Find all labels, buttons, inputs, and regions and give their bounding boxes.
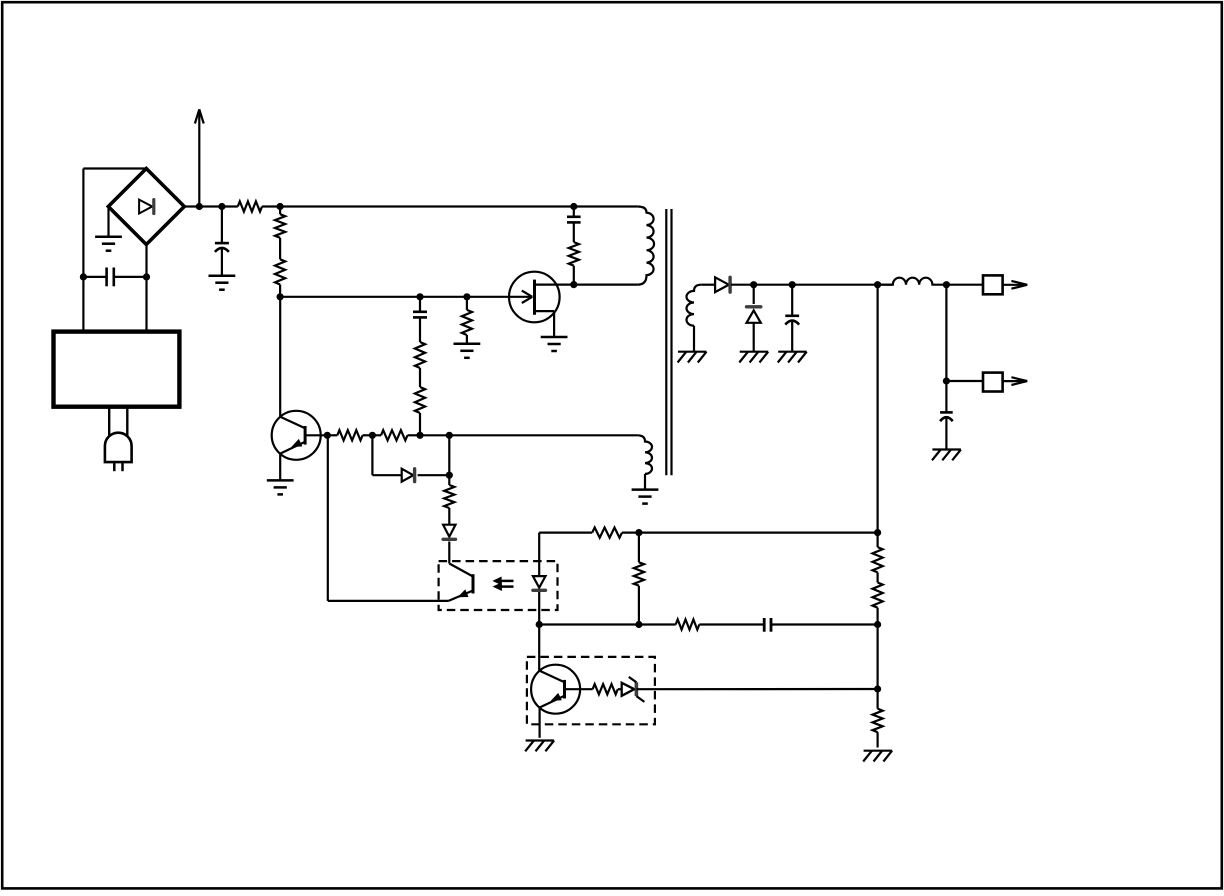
wire	[280, 296, 509, 298]
diode D3	[372, 435, 449, 481]
node	[196, 203, 203, 210]
node	[635, 529, 642, 536]
ground	[632, 490, 659, 504]
wire	[184, 205, 238, 207]
ground	[778, 352, 807, 363]
resistor R10	[327, 430, 372, 440]
resistor R13	[592, 528, 877, 538]
connector J2 output -	[946, 373, 1027, 392]
capacitor C2 with ground	[209, 207, 236, 290]
wire	[539, 623, 676, 625]
optocoupler U1 phototransistor	[449, 564, 474, 601]
ground	[678, 352, 707, 363]
capacitor C4	[567, 207, 581, 243]
optocoupler U1 LED	[533, 533, 546, 625]
capacitor C7	[764, 618, 877, 632]
arrow: rectified HV	[195, 109, 204, 206]
node	[570, 203, 577, 210]
wire	[754, 284, 893, 286]
diode D1	[701, 277, 754, 292]
node	[463, 293, 470, 300]
resistor R8	[873, 547, 883, 624]
ground	[739, 352, 768, 363]
wire	[420, 434, 449, 436]
wire	[280, 205, 637, 207]
optocoupler U1 light arrows	[494, 577, 514, 590]
capacitor C3	[413, 297, 427, 318]
ground	[863, 751, 892, 762]
shunt regulator U2 package	[527, 657, 655, 724]
wire	[262, 205, 280, 207]
wire	[83, 167, 146, 169]
node: drain	[570, 281, 577, 288]
transformer T1 aux winding	[638, 435, 652, 489]
ground	[454, 344, 481, 358]
zener diode D2	[747, 285, 761, 352]
resistor R5	[415, 368, 425, 435]
wire	[328, 435, 449, 601]
node	[536, 621, 543, 628]
node	[750, 281, 757, 288]
AC plug P1	[105, 407, 132, 472]
diode D4	[443, 525, 455, 564]
node: AC right	[143, 273, 150, 280]
ground	[525, 741, 554, 752]
transistor Q2	[272, 297, 328, 481]
resistor R15	[676, 619, 765, 629]
node	[943, 281, 950, 288]
optocoupler U1 package	[439, 561, 558, 610]
EMI filter block	[54, 332, 180, 407]
ground	[541, 337, 568, 351]
MOSFET Q1	[509, 272, 574, 337]
wire	[574, 284, 638, 286]
resistor R11	[372, 430, 420, 440]
wire	[145, 277, 147, 332]
wire	[945, 285, 947, 381]
wire	[145, 245, 147, 277]
node	[943, 377, 950, 384]
wire	[876, 625, 878, 690]
resistor R9	[873, 689, 883, 748]
capacitor C6	[940, 381, 953, 450]
capacitor C1	[83, 268, 146, 287]
node	[635, 621, 642, 628]
node	[789, 281, 796, 288]
transformer T1 secondary	[687, 285, 702, 352]
wire	[449, 434, 637, 436]
node	[874, 621, 881, 628]
node	[446, 472, 453, 479]
ground	[267, 480, 294, 494]
ground	[932, 450, 961, 461]
wire	[448, 435, 450, 475]
transformer T1 core	[666, 209, 671, 475]
capacitor C5	[785, 285, 799, 352]
zener diode D5	[618, 677, 878, 702]
wire	[82, 169, 84, 277]
wire	[539, 531, 592, 533]
ground	[95, 207, 122, 251]
node: Q2 base	[324, 432, 331, 439]
resistor R1	[238, 201, 262, 211]
resistor R12	[444, 475, 454, 525]
node	[874, 685, 881, 692]
resistor R4	[415, 317, 425, 368]
resistor R3	[275, 238, 285, 297]
transformer T1 primary	[638, 207, 654, 285]
node	[874, 281, 881, 288]
resistor R2	[275, 207, 285, 238]
transistor Q3 (shunt regulator)	[531, 625, 580, 738]
node	[369, 432, 376, 439]
node	[277, 293, 284, 300]
wire	[876, 285, 878, 547]
node	[416, 432, 423, 439]
node	[416, 293, 423, 300]
resistor R6	[462, 297, 472, 344]
resistor R14	[634, 533, 644, 625]
node	[446, 432, 453, 439]
wire	[82, 277, 84, 332]
bridge rectifier BR1	[108, 169, 184, 245]
node	[218, 203, 225, 210]
inductor L1	[878, 278, 947, 285]
resistor R16	[565, 684, 618, 694]
node	[874, 529, 881, 536]
connector J1 output +	[946, 275, 1027, 294]
resistor R7	[569, 242, 579, 285]
node	[277, 203, 284, 210]
node: AC left	[80, 273, 87, 280]
